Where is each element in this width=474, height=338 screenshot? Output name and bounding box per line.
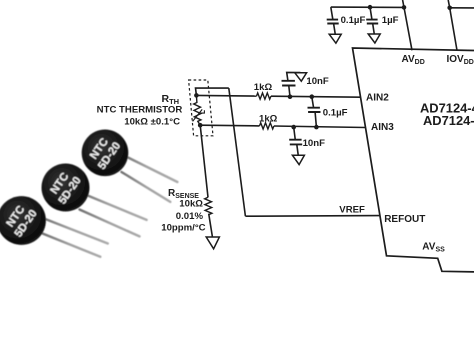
capacitor C5 10nF stem top — [294, 127, 296, 139]
svg-text:AIN3: AIN3 — [371, 122, 394, 133]
svg-text:10kΩ: 10kΩ — [179, 198, 203, 209]
wire thermistor top jog up — [196, 88, 229, 95]
photo thermistor disc2 body — [42, 164, 90, 212]
photo thermistor disc3 label — [2, 201, 39, 240]
svg-text:AD7124-8: AD7124-8 — [423, 113, 474, 128]
capacitor C5 10nF stem bottom — [297, 145, 298, 156]
svg-text:10nF: 10nF — [303, 138, 326, 149]
capacitor C1 0.1uF stem bottom — [334, 24, 336, 34]
wire top rail IOVDD — [450, 7, 474, 9]
node junction IOVDD dot — [447, 6, 452, 11]
svg-text:10ppm/°C: 10ppm/°C — [161, 223, 205, 234]
node junction C4 on AIN3 — [314, 125, 319, 130]
resistor R2 1k zigzag — [260, 123, 274, 129]
svg-text:0.1µF: 0.1µF — [323, 107, 348, 118]
node junction AVDD dot — [402, 5, 407, 10]
svg-text:10kΩ ±0.1°C: 10kΩ ±0.1°C — [124, 116, 180, 127]
node thermistor bottom — [198, 123, 203, 128]
capacitor C2 1uF stem bottom — [373, 24, 375, 34]
capacitor C3 10nF stem up — [287, 72, 301, 80]
op-amp U1 AD7124 chip outline — [353, 48, 474, 272]
ground under C2 — [368, 34, 380, 43]
wire AIN3 right segment — [274, 126, 366, 128]
capacitor C3 10nF plates — [282, 81, 296, 86]
wire VREF vertical slant — [229, 88, 246, 216]
svg-text:1kΩ: 1kΩ — [254, 82, 273, 93]
photo thermistor disc2 label — [46, 168, 83, 207]
resistor R1 1k zigzag — [257, 93, 271, 99]
wire top rail AVDD — [331, 6, 404, 8]
wire AIN3 left segment — [200, 124, 259, 127]
svg-text:NTC THERMISTOR: NTC THERMISTOR — [97, 105, 183, 116]
node junction C5 on AIN3 — [291, 125, 296, 130]
wire IOVDD supply drop to pin — [448, 0, 457, 50]
svg-text:REFOUT: REFOUT — [384, 214, 425, 225]
svg-text:0.01%: 0.01% — [176, 211, 204, 222]
capacitor C2 1uF stem top — [370, 7, 372, 19]
wire AIN2 right segment — [271, 96, 361, 97]
capacitor C3 10nF stem down to AIN2 — [289, 86, 290, 97]
photo thermistor leads disc3 — [42, 219, 108, 257]
capacitor C1 0.1uF stem top — [331, 7, 333, 19]
svg-text:1kΩ: 1kΩ — [259, 114, 278, 125]
capacitor C1 0.1uF plates — [327, 20, 339, 24]
wire VREF horizontal to REFOUT — [245, 215, 380, 218]
ground under C1 — [329, 34, 341, 43]
svg-text:1µF: 1µF — [382, 15, 399, 26]
thermistor RTH dashed box — [189, 80, 213, 136]
svg-text:0.1µF: 0.1µF — [341, 15, 366, 26]
node thermistor top — [194, 93, 199, 98]
photo thermistor leads disc2 — [80, 194, 147, 236]
thermistor RTH diagonal mark — [193, 109, 205, 121]
ground under C5 — [292, 155, 304, 164]
photo thermistor leads disc1 — [122, 157, 178, 202]
wire AIN2 left segment — [196, 94, 256, 97]
svg-text:AIN2: AIN2 — [366, 93, 389, 104]
node junction C3 on AIN2 — [288, 94, 293, 99]
node junction 1uF on rail — [368, 5, 373, 10]
resistor RSENSE zigzag — [205, 197, 212, 214]
photo thermistor disc1 label — [86, 133, 123, 172]
node junction C4 on AIN2 — [310, 94, 315, 99]
svg-text:VREF: VREF — [339, 204, 365, 215]
thermistor RTH zigzag — [194, 95, 201, 125]
wire AVDD supply drop to pin — [403, 0, 412, 50]
capacitor C4 0.1uF stem bottom — [315, 112, 316, 127]
capacitor C2 1uF plates — [366, 20, 378, 24]
capacitor C4 0.1uF plates — [308, 108, 321, 112]
wire thermistor bottom to RSENSE — [200, 125, 208, 197]
svg-text:10nF: 10nF — [306, 76, 329, 87]
wire RSENSE to ground — [209, 214, 213, 237]
photo thermistor disc3 body — [0, 196, 46, 245]
capacitor C5 10nF plates — [289, 140, 302, 145]
ground right of C3 — [295, 73, 307, 81]
ground under RSENSE — [206, 237, 219, 249]
photo thermistor disc1 body — [82, 130, 129, 177]
capacitor C4 0.1uF stem top — [312, 97, 314, 108]
